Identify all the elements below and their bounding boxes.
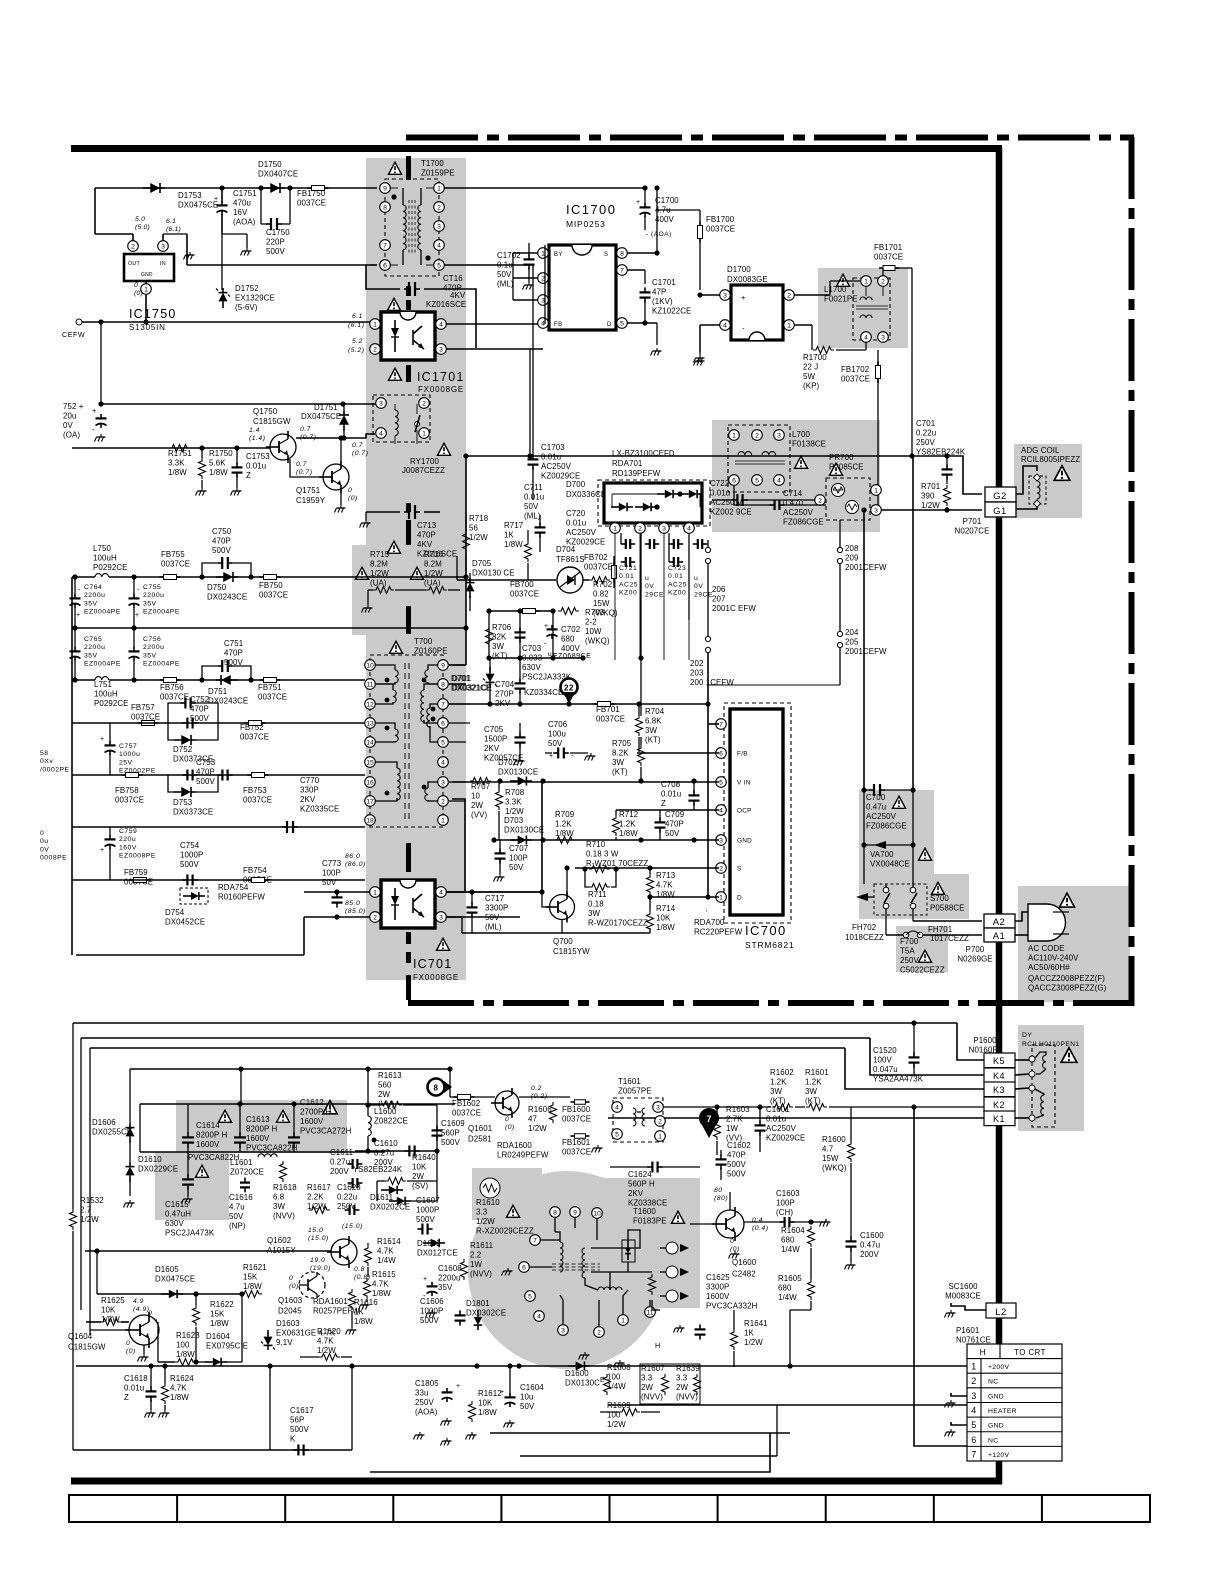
svg-text:2: 2	[597, 1329, 601, 1336]
svg-text:R1532: R1532	[80, 1196, 104, 1205]
svg-text:1/8W: 1/8W	[656, 923, 675, 932]
svg-text:FB: FB	[554, 322, 563, 328]
svg-text:(0.7): (0.7)	[300, 434, 316, 441]
svg-text:4KV: 4KV	[450, 291, 466, 300]
svg-text:500V: 500V	[441, 1138, 460, 1147]
svg-text:50V: 50V	[524, 502, 539, 511]
svg-text:AC50/60H#: AC50/60H#	[1028, 963, 1070, 972]
svg-text:2KV: 2KV	[300, 795, 316, 804]
svg-text:Q1601: Q1601	[468, 1124, 492, 1133]
svg-text:EZ0004PE: EZ0004PE	[143, 609, 180, 616]
svg-text:470P: 470P	[224, 649, 243, 658]
svg-text:KZ00: KZ00	[668, 590, 686, 597]
svg-text:D2045: D2045	[278, 1307, 302, 1316]
svg-text:11: 11	[366, 681, 373, 688]
svg-text:5: 5	[437, 262, 441, 269]
svg-text:2: 2	[755, 432, 759, 439]
svg-text:0.47u: 0.47u	[860, 1241, 880, 1250]
svg-text:C702: C702	[561, 625, 580, 634]
svg-text:1: 1	[441, 817, 445, 824]
svg-text:56: 56	[469, 524, 478, 533]
svg-text:80: 80	[714, 1187, 723, 1194]
svg-text:100V: 100V	[873, 1056, 892, 1065]
svg-text:F700: F700	[900, 937, 919, 946]
svg-text:8: 8	[434, 1084, 439, 1093]
svg-text:C1815GW: C1815GW	[253, 417, 291, 426]
svg-text:G2: G2	[993, 491, 1007, 502]
svg-text:C1609: C1609	[441, 1119, 465, 1128]
svg-text:R716: R716	[424, 550, 444, 559]
svg-text:DX0452CE: DX0452CE	[165, 918, 205, 927]
svg-text:RDA754: RDA754	[218, 883, 249, 892]
svg-text:7: 7	[620, 267, 624, 274]
svg-text:6: 6	[971, 1435, 977, 1445]
svg-text:C1612: C1612	[300, 1098, 324, 1107]
svg-text:16: 16	[366, 779, 374, 786]
svg-text:2200u: 2200u	[438, 1274, 460, 1283]
svg-text:3.3: 3.3	[641, 1374, 653, 1383]
svg-text:3W: 3W	[770, 1087, 782, 1096]
svg-text:8: 8	[383, 204, 387, 211]
svg-text:R1621: R1621	[243, 1263, 267, 1272]
svg-text:PVC3CA332H: PVC3CA332H	[706, 1302, 758, 1311]
svg-text:0V: 0V	[694, 583, 703, 590]
svg-text:C1701: C1701	[652, 278, 676, 287]
svg-text:0.47u: 0.47u	[866, 803, 886, 812]
svg-text:/0002PE: /0002PE	[40, 766, 70, 773]
svg-text:2: 2	[881, 278, 885, 285]
svg-text:KZ0334CE: KZ0334CE	[524, 688, 563, 697]
svg-text:1018CEZZ: 1018CEZZ	[845, 933, 884, 942]
svg-text:208: 208	[845, 544, 859, 553]
svg-text:(6.1): (6.1)	[348, 322, 364, 329]
svg-text:1017CEZZ: 1017CEZZ	[930, 934, 969, 943]
svg-text:(WKQ): (WKQ)	[585, 637, 610, 646]
svg-text:DX0130C: DX0130C	[565, 1379, 600, 1388]
svg-text:(AOA): (AOA)	[415, 1408, 438, 1417]
svg-text:R1608: R1608	[607, 1363, 631, 1372]
svg-text:1600V: 1600V	[300, 1117, 324, 1126]
svg-text:FB758: FB758	[115, 786, 139, 795]
svg-text:202: 202	[690, 659, 703, 668]
svg-text:C1610: C1610	[374, 1139, 398, 1148]
svg-text:85.0: 85.0	[345, 900, 360, 907]
svg-text:0.01: 0.01	[619, 573, 634, 580]
svg-text:R-WZ0170CEZZ: R-WZ0170CEZZ	[588, 919, 648, 928]
svg-text:F/B: F/B	[737, 751, 748, 758]
svg-text:C1607: C1607	[416, 1196, 440, 1205]
svg-text:1: 1	[732, 432, 736, 439]
svg-text:50V: 50V	[497, 270, 512, 279]
svg-text:680: 680	[781, 1236, 795, 1245]
svg-text:A2: A2	[993, 917, 1006, 928]
svg-text:C770: C770	[300, 776, 320, 785]
svg-text:FB1701: FB1701	[874, 243, 902, 252]
svg-text:(NVV): (NVV)	[641, 1393, 663, 1402]
svg-text:50V: 50V	[509, 863, 524, 872]
svg-text:2KV: 2KV	[628, 1189, 644, 1198]
svg-text:330P: 330P	[300, 786, 319, 795]
svg-text:DX0202CE: DX0202CE	[370, 1203, 410, 1212]
svg-text:J0087CEZZ: J0087CEZZ	[402, 466, 445, 475]
svg-text:0.22u: 0.22u	[916, 429, 936, 438]
svg-text:(15.0): (15.0)	[342, 1223, 363, 1230]
svg-text:3: 3	[719, 837, 723, 844]
svg-text:0V: 0V	[645, 583, 654, 590]
svg-text:+: +	[135, 612, 140, 619]
svg-text:IN: IN	[160, 261, 166, 267]
svg-text:Z: Z	[124, 1393, 129, 1402]
svg-text:1K: 1K	[744, 1329, 754, 1338]
svg-text:1/8W: 1/8W	[619, 829, 638, 838]
svg-text:D: D	[607, 322, 612, 328]
svg-text:1/8W: 1/8W	[354, 1317, 373, 1326]
svg-text:QACCZ2008PEZZ(F): QACCZ2008PEZZ(F)	[1028, 974, 1105, 983]
svg-text:4: 4	[615, 1104, 619, 1111]
svg-text:1000u: 1000u	[119, 751, 140, 758]
svg-text:OCP: OCP	[737, 808, 752, 815]
svg-text:C700: C700	[866, 793, 886, 802]
svg-text:R1614: R1614	[377, 1237, 401, 1246]
svg-text:4: 4	[864, 334, 868, 341]
svg-text:2: 2	[818, 497, 822, 504]
svg-text:400V: 400V	[655, 215, 674, 224]
svg-text:C773: C773	[322, 859, 342, 868]
svg-text:9: 9	[573, 1209, 577, 1216]
svg-text:C764: C764	[84, 584, 102, 591]
svg-text:500V: 500V	[416, 1215, 435, 1224]
svg-text:206: 206	[712, 585, 726, 594]
svg-text:R715: R715	[370, 550, 390, 559]
svg-text:5: 5	[528, 1293, 532, 1300]
svg-text:(CH): (CH)	[776, 1208, 793, 1217]
svg-text:0.27u: 0.27u	[330, 1158, 350, 1167]
svg-text:100uH: 100uH	[93, 554, 117, 563]
svg-text:0037CE: 0037CE	[259, 591, 288, 600]
svg-text:15K: 15K	[210, 1310, 225, 1319]
svg-text:4: 4	[439, 321, 443, 328]
svg-text:6.8K: 6.8K	[645, 717, 662, 726]
svg-text:C757: C757	[119, 743, 137, 750]
svg-text:2200u: 2200u	[84, 592, 105, 599]
svg-text:FB1602: FB1602	[452, 1099, 480, 1108]
svg-text:3: 3	[439, 914, 443, 921]
svg-text:250V: 250V	[916, 438, 935, 447]
svg-text:1: 1	[874, 487, 878, 494]
svg-text:1500P: 1500P	[484, 735, 507, 744]
svg-text:C754: C754	[180, 841, 200, 850]
svg-text:(SV): (SV)	[412, 1182, 428, 1191]
svg-text:4: 4	[719, 807, 723, 814]
svg-text:(0): (0)	[348, 495, 358, 502]
svg-text:0.047u: 0.047u	[873, 1065, 898, 1074]
svg-text:+: +	[92, 406, 97, 415]
svg-text:1600V: 1600V	[196, 1140, 220, 1149]
svg-text:50V: 50V	[520, 1402, 535, 1411]
svg-text:DX0130 CE: DX0130 CE	[472, 569, 515, 578]
svg-text:+: +	[549, 753, 554, 760]
svg-text:1: 1	[422, 430, 426, 437]
svg-text:205: 205	[845, 638, 859, 647]
svg-text:35V: 35V	[84, 652, 98, 659]
svg-text:35V: 35V	[143, 652, 157, 659]
svg-text:C750: C750	[212, 527, 232, 536]
svg-text:470u: 470u	[233, 199, 251, 208]
svg-text:C1753: C1753	[246, 452, 270, 461]
svg-text:D1700: D1700	[727, 265, 751, 274]
svg-text:L2: L2	[995, 1307, 1007, 1318]
svg-text:DY: DY	[1022, 1032, 1032, 1039]
svg-text:FB751: FB751	[258, 683, 282, 692]
svg-text:-: -	[137, 587, 140, 594]
svg-text:C1614: C1614	[196, 1121, 220, 1130]
svg-text:C1602: C1602	[727, 1141, 751, 1150]
svg-text:(1KV): (1KV)	[652, 297, 673, 306]
svg-text:D753: D753	[173, 798, 193, 807]
svg-text:0037CE: 0037CE	[562, 1148, 591, 1157]
svg-text:0037CE: 0037CE	[452, 1109, 481, 1118]
svg-text:0.01u: 0.01u	[246, 462, 266, 471]
svg-text:T1601: T1601	[618, 1077, 641, 1086]
svg-text:2001CEFW: 2001CEFW	[845, 563, 887, 572]
svg-text:V IN: V IN	[737, 780, 751, 787]
svg-text:DX0130CE: DX0130CE	[498, 768, 538, 777]
svg-text:AC250V: AC250V	[783, 508, 814, 517]
svg-text:C1703: C1703	[541, 443, 565, 452]
svg-text:Z0822CE: Z0822CE	[374, 1117, 408, 1126]
svg-text:9: 9	[383, 185, 387, 192]
svg-text:3.3: 3.3	[676, 1374, 688, 1383]
svg-text:Q1602: Q1602	[267, 1236, 291, 1245]
svg-text:K2: K2	[993, 1100, 1005, 1110]
svg-text:D1603: D1603	[276, 1319, 300, 1328]
svg-text:0.01u: 0.01u	[124, 1384, 144, 1393]
svg-text:FX0008GE: FX0008GE	[418, 385, 464, 394]
svg-text:PR700: PR700	[829, 453, 854, 462]
svg-text:500V: 500V	[212, 546, 231, 555]
svg-text:200V: 200V	[330, 1167, 349, 1176]
svg-text:YSA2AA473K: YSA2AA473K	[873, 1075, 924, 1084]
svg-text:1/2W: 1/2W	[505, 807, 524, 816]
svg-text:3.3K: 3.3K	[168, 459, 185, 468]
svg-text:0: 0	[730, 1238, 734, 1245]
svg-text:D705: D705	[472, 559, 492, 568]
svg-text:D751: D751	[208, 687, 227, 696]
svg-text:18: 18	[366, 817, 374, 824]
svg-text:0037CE: 0037CE	[841, 375, 870, 384]
svg-text:HEATER: HEATER	[988, 1408, 1017, 1415]
svg-text:3: 3	[874, 507, 878, 514]
svg-text:0.7: 0.7	[300, 426, 311, 433]
svg-text:C721: C721	[619, 565, 637, 572]
svg-text:K: K	[290, 1435, 296, 1444]
svg-text:(0): (0)	[289, 1283, 299, 1290]
svg-text:T1600: T1600	[633, 1207, 656, 1216]
svg-text:C1751: C1751	[233, 189, 257, 198]
svg-text:(85.0): (85.0)	[345, 908, 366, 915]
svg-text:C751: C751	[224, 639, 243, 648]
svg-text:R713: R713	[656, 871, 676, 880]
svg-text:EZ0689CE: EZ0689CE	[553, 653, 591, 660]
svg-text:0037CE: 0037CE	[161, 560, 190, 569]
svg-text:C707: C707	[509, 844, 528, 853]
svg-text:RDA700: RDA700	[694, 918, 725, 927]
svg-text:100P: 100P	[509, 854, 528, 863]
svg-text:C1702: C1702	[497, 251, 521, 260]
svg-text:1/2W: 1/2W	[476, 1217, 495, 1226]
svg-text:2.2: 2.2	[470, 1251, 481, 1260]
svg-text:0037CE: 0037CE	[243, 796, 272, 805]
svg-text:47P: 47P	[652, 288, 666, 297]
svg-text:680: 680	[561, 635, 575, 644]
svg-text:+: +	[76, 612, 81, 619]
svg-text:2W: 2W	[676, 1383, 688, 1392]
svg-text:2: 2	[437, 204, 441, 211]
svg-text:250V: 250V	[415, 1398, 434, 1407]
svg-text:3300P: 3300P	[706, 1283, 729, 1292]
svg-text:C2482: C2482	[732, 1270, 756, 1279]
svg-text:2-2: 2-2	[585, 618, 597, 627]
svg-text:0.18 3 W: 0.18 3 W	[586, 850, 619, 859]
svg-text:A1: A1	[993, 931, 1006, 942]
svg-text:22 J: 22 J	[803, 363, 818, 372]
svg-text:29CE: 29CE	[694, 591, 713, 598]
svg-text:2KV: 2KV	[484, 744, 500, 753]
svg-text:560P H: 560P H	[628, 1180, 655, 1189]
svg-text:6.1: 6.1	[166, 218, 176, 225]
svg-text:4.7K: 4.7K	[656, 881, 673, 890]
svg-text:8: 8	[620, 250, 624, 257]
svg-text:C1606: C1606	[420, 1297, 444, 1306]
svg-text:0.7: 0.7	[352, 442, 363, 449]
svg-text:L751: L751	[94, 680, 112, 689]
svg-text:C714: C714	[783, 489, 803, 498]
svg-text:0u: 0u	[40, 838, 49, 845]
svg-text:1/2W: 1/2W	[744, 1338, 763, 1347]
svg-text:D2581: D2581	[468, 1135, 492, 1144]
svg-text:STRM6821: STRM6821	[745, 940, 794, 950]
svg-text:R717: R717	[504, 521, 523, 530]
svg-text:2.7K: 2.7K	[726, 1115, 743, 1124]
svg-text:FX0008GE: FX0008GE	[413, 973, 459, 982]
svg-text:R701: R701	[921, 482, 940, 491]
svg-text:S: S	[737, 866, 742, 873]
svg-text:2.2K: 2.2K	[307, 1193, 324, 1202]
svg-text:R0160PEFW: R0160PEFW	[218, 893, 265, 902]
svg-text:EZ0008PE: EZ0008PE	[119, 853, 156, 860]
svg-text:2: 2	[373, 346, 377, 353]
svg-text:500V: 500V	[180, 860, 199, 869]
svg-text:500V: 500V	[196, 777, 215, 786]
svg-text:1/4W: 1/4W	[607, 1382, 626, 1391]
svg-text:R1620: R1620	[317, 1327, 341, 1336]
svg-text:R1612: R1612	[478, 1389, 502, 1398]
svg-text:D1604: D1604	[206, 1332, 230, 1341]
svg-text:(86.0): (86.0)	[345, 861, 366, 868]
svg-text:35V: 35V	[143, 600, 157, 607]
svg-text:IC1701: IC1701	[417, 370, 465, 384]
svg-text:C1625: C1625	[706, 1273, 730, 1282]
svg-text:T700: T700	[414, 637, 433, 646]
svg-text:(0): (0)	[505, 1124, 515, 1131]
svg-text:0.18: 0.18	[588, 900, 604, 909]
svg-text:2W: 2W	[378, 1090, 390, 1099]
svg-text:7: 7	[719, 721, 723, 728]
svg-text:200V: 200V	[860, 1250, 879, 1259]
svg-text:100: 100	[176, 1341, 190, 1350]
svg-text:9.1V: 9.1V	[276, 1338, 293, 1347]
svg-text:2W: 2W	[641, 1383, 653, 1392]
svg-text:S: S	[604, 252, 609, 258]
svg-text:VA700: VA700	[870, 850, 894, 859]
svg-text:1: 1	[613, 525, 617, 532]
svg-text:5: 5	[441, 739, 445, 746]
svg-text:2.7: 2.7	[80, 1206, 91, 1215]
svg-text:C759: C759	[119, 828, 137, 835]
svg-text:YS82EB224K: YS82EB224K	[353, 1165, 403, 1174]
svg-text:(5-6V): (5-6V)	[235, 303, 258, 312]
svg-text:C1616: C1616	[229, 1193, 253, 1202]
svg-text:16V: 16V	[233, 208, 248, 217]
svg-text:P1600: P1600	[973, 1036, 997, 1045]
svg-text:1600V: 1600V	[706, 1292, 730, 1301]
svg-text:F0138CE: F0138CE	[792, 440, 826, 449]
svg-text:(KT): (KT)	[770, 1097, 786, 1106]
svg-text:AC250V: AC250V	[541, 462, 572, 471]
svg-text:0: 0	[40, 830, 44, 837]
svg-text:200 1CEFW: 200 1CEFW	[690, 678, 734, 687]
svg-text:50V: 50V	[665, 829, 680, 838]
svg-text:DX0243CE: DX0243CE	[207, 593, 247, 602]
svg-text:C1611: C1611	[330, 1148, 353, 1157]
svg-text:0.01u: 0.01u	[766, 1115, 786, 1124]
svg-text:6: 6	[719, 750, 723, 757]
svg-text:4KV: 4KV	[417, 540, 433, 549]
svg-text:1: 1	[437, 185, 441, 192]
svg-text:(6.1): (6.1)	[166, 226, 181, 233]
svg-text:L1600: L1600	[374, 1107, 397, 1116]
svg-text:4.9: 4.9	[133, 1298, 144, 1305]
svg-text:GND: GND	[988, 1393, 1004, 1400]
svg-text:S700: S700	[930, 894, 949, 903]
svg-text:5W: 5W	[803, 372, 815, 381]
svg-text:GND: GND	[737, 838, 752, 845]
svg-text:13: 13	[366, 720, 374, 727]
svg-text:R714: R714	[656, 904, 676, 913]
svg-text:LR0249PEFW: LR0249PEFW	[497, 1151, 549, 1160]
svg-text:10u: 10u	[520, 1393, 533, 1402]
svg-text:1: 1	[787, 322, 791, 329]
svg-text:Z0057PE: Z0057PE	[618, 1087, 652, 1096]
svg-text:100u: 100u	[548, 730, 566, 739]
svg-text:DX0336CE: DX0336CE	[566, 490, 606, 499]
svg-text:(1.4): (1.4)	[249, 435, 265, 442]
svg-text:R1623: R1623	[176, 1331, 200, 1340]
svg-text:ADG COIL: ADG COIL	[1021, 446, 1060, 455]
svg-text:R1601: R1601	[805, 1068, 829, 1077]
svg-text:1000P: 1000P	[180, 851, 203, 860]
svg-text:Z: Z	[661, 799, 666, 808]
svg-text:KZ1022CE: KZ1022CE	[652, 307, 691, 316]
svg-text:L1601: L1601	[230, 1158, 252, 1167]
svg-text:C704: C704	[495, 680, 515, 689]
svg-text:220P: 220P	[266, 238, 285, 247]
svg-text:5: 5	[971, 1420, 977, 1430]
svg-text:3W: 3W	[588, 909, 600, 918]
svg-text:FB1700: FB1700	[706, 215, 735, 224]
svg-text:D701: D701	[451, 674, 470, 683]
svg-text:25V: 25V	[119, 759, 133, 766]
